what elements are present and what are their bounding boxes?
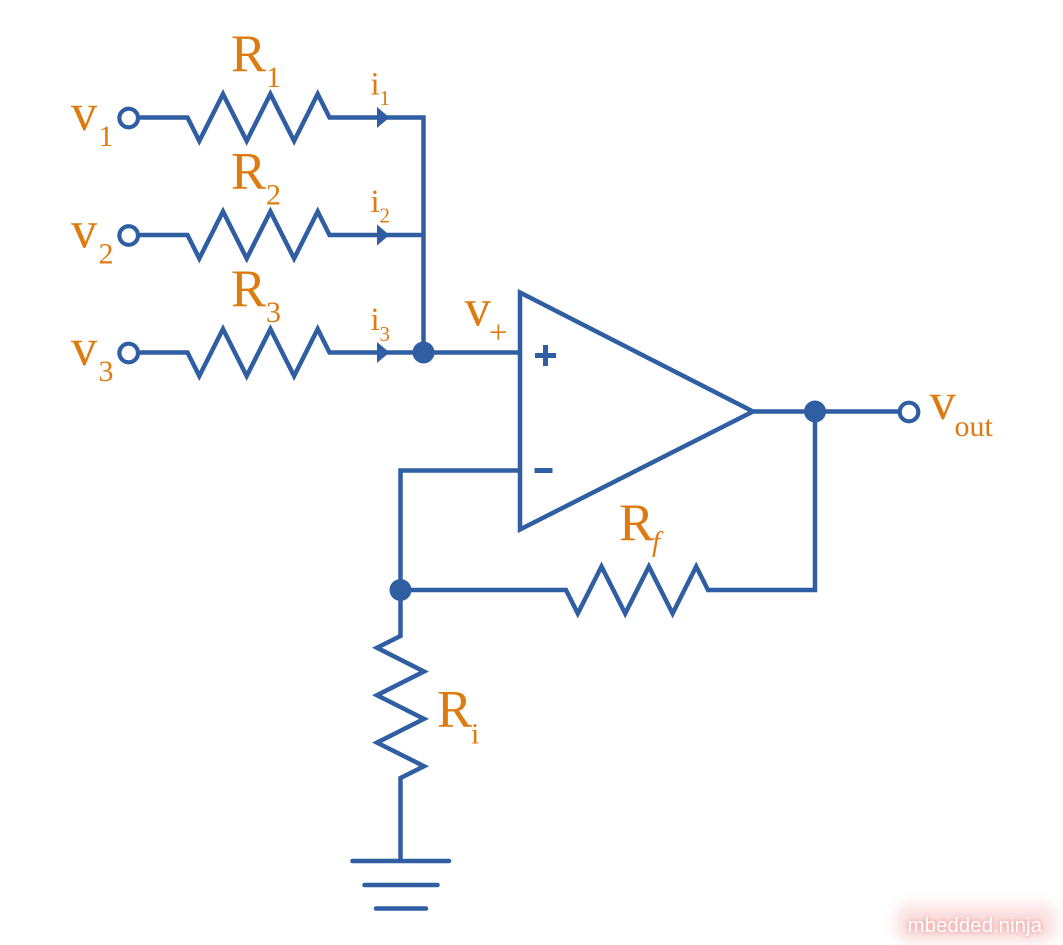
svg-text:v: v bbox=[71, 202, 98, 260]
svg-text:3: 3 bbox=[99, 355, 114, 388]
svg-text:i: i bbox=[371, 67, 380, 103]
svg-text:v: v bbox=[71, 84, 98, 142]
svg-text:+: + bbox=[489, 315, 508, 351]
svg-text:v: v bbox=[465, 280, 492, 338]
svg-text:R: R bbox=[231, 143, 266, 201]
svg-text:i: i bbox=[371, 302, 380, 338]
svg-text:2: 2 bbox=[380, 204, 391, 228]
svg-text:2: 2 bbox=[266, 179, 281, 212]
svg-text:f: f bbox=[652, 526, 664, 558]
svg-text:R: R bbox=[619, 494, 654, 552]
svg-text:3: 3 bbox=[380, 322, 391, 346]
svg-text:out: out bbox=[955, 410, 994, 443]
svg-text:R: R bbox=[437, 681, 472, 739]
svg-text:1: 1 bbox=[99, 120, 114, 153]
svg-text:2: 2 bbox=[99, 238, 114, 271]
svg-text:v: v bbox=[71, 319, 98, 377]
svg-text:3: 3 bbox=[266, 296, 281, 329]
svg-text:1: 1 bbox=[380, 86, 391, 110]
svg-text:i: i bbox=[471, 718, 479, 751]
svg-text:R: R bbox=[231, 260, 266, 318]
svg-text:1: 1 bbox=[266, 61, 281, 94]
svg-text:v: v bbox=[930, 373, 957, 431]
svg-text:i: i bbox=[371, 184, 380, 220]
svg-text:R: R bbox=[231, 25, 266, 83]
